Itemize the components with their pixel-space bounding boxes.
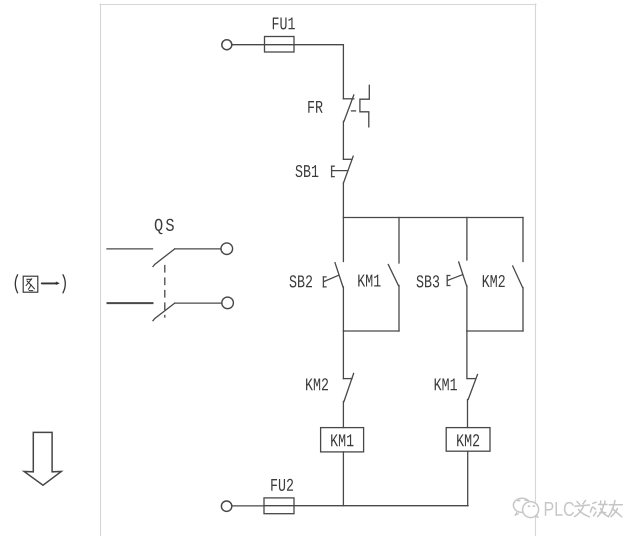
caption (图一) (15, 275, 65, 293)
terminal T2 (bottom supply) (221, 501, 231, 511)
disconnect switch QS (107, 219, 233, 321)
pushbutton SB1 (NC stop button) (296, 156, 354, 183)
wire coil KM2 to bottom bus (467, 451, 469, 506)
fuse FU2 (264, 479, 294, 514)
node A horizontal bus (343, 217, 523, 219)
bottom bus wire (294, 505, 468, 507)
wire T1 to FU1 (232, 44, 265, 46)
QS pole 1 left wire (107, 248, 153, 250)
QS pole 2 terminal (222, 297, 234, 309)
wire FU1 to FR (top rail corner) (294, 45, 343, 99)
QS pole 1 right wire (175, 248, 221, 250)
fuse FU1 (265, 17, 295, 52)
thermal overload relay contact FR (NC) (308, 85, 369, 127)
QS mechanical link (dashed) (164, 266, 166, 318)
wire KM2 NC to coil KM1 (342, 401, 344, 427)
QS pole 2 left wire (108, 302, 153, 304)
pushbutton SB2 (NO start button) (290, 263, 343, 288)
QS pole 1 terminal (221, 243, 233, 255)
QS pole 2 right wire (175, 302, 222, 304)
terminal T1 (top supply) (222, 40, 232, 50)
wire join to KM2 NC interlock (342, 331, 344, 379)
contact KM2 (NO self-holding auxiliary) (483, 266, 523, 288)
pushbutton SB3 (NO start button) (417, 262, 467, 287)
coil KM1 (321, 428, 364, 452)
wire KM2 contact to join (522, 288, 524, 332)
wire join of SB3 and KM2 branches (467, 330, 523, 332)
wire bus to KM2 NO contact (522, 218, 524, 262)
contact KM1 (NC interlock) (435, 375, 478, 400)
contact KM2 (NC interlock) (306, 374, 354, 402)
page border frame (decorative) (100, 4, 536, 536)
wire SB3 to join (466, 286, 468, 331)
arrow down (next-figure indicator) (24, 432, 61, 485)
QS pole 1 blade (153, 249, 175, 267)
coil KM2 (446, 428, 490, 452)
wire coil KM1 to bottom bus (342, 452, 344, 506)
wire KM1 NC to coil KM2 (467, 399, 469, 427)
wire SB2 to join (342, 287, 344, 331)
wire FR to SB1 (342, 121, 344, 159)
QS pole 2 blade (153, 303, 175, 321)
watermark WeChat logo (513, 498, 538, 517)
wire join of SB2 and KM1 branches (343, 330, 399, 332)
wire SB1 to node A (342, 183, 344, 218)
watermark text PLC发烧友 (545, 501, 622, 517)
wire bus to SB3 (466, 218, 468, 261)
wire FU2 to terminal T2 (232, 505, 264, 507)
wire bus to SB2 (342, 218, 344, 262)
wire KM1 contact to join (398, 286, 400, 332)
contact KM1 (NO self-holding auxiliary) (358, 265, 398, 287)
wire bus to KM1 NO contact (398, 218, 400, 264)
wire join to KM1 NC interlock (466, 331, 468, 379)
